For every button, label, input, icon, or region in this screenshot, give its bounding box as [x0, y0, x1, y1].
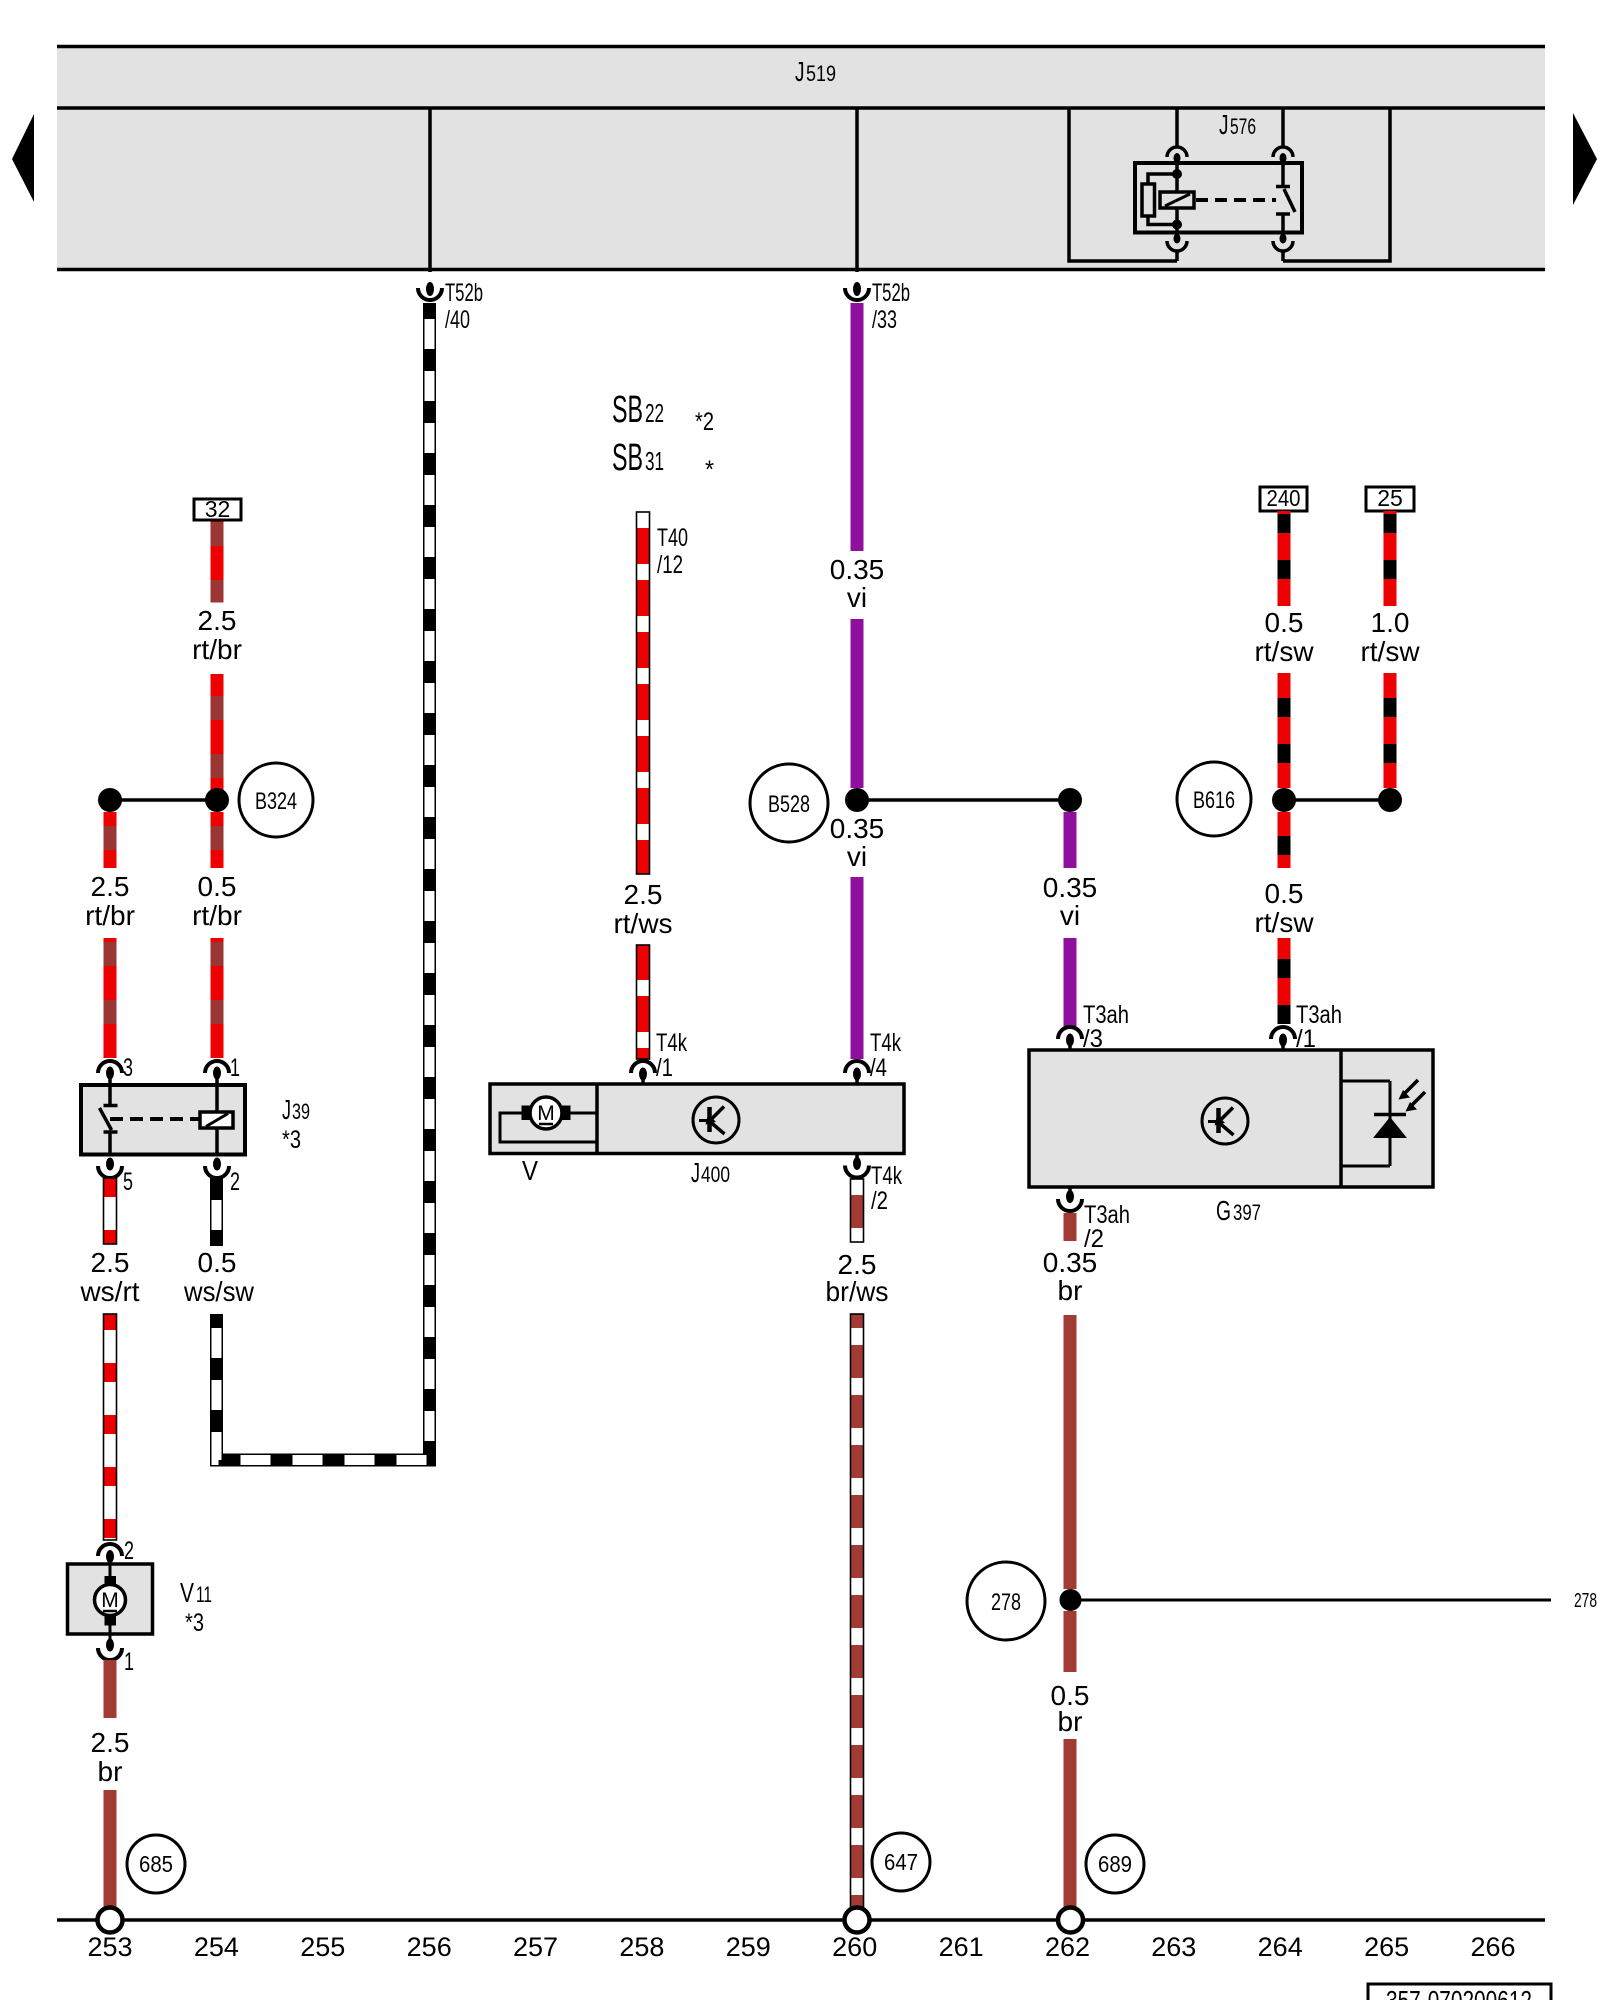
continuation arrow right	[1573, 113, 1597, 205]
svg-text:1.0: 1.0	[1371, 607, 1410, 638]
svg-text:685: 685	[139, 1851, 173, 1877]
svg-text:rt/sw: rt/sw	[1360, 636, 1420, 667]
svg-text:J: J	[691, 1157, 700, 1188]
sensor G397 pin T3ah/1 connector	[1271, 1027, 1295, 1039]
relay J39 pin 1 connector	[205, 1061, 229, 1073]
svg-text:vi: vi	[847, 582, 867, 613]
relay J39 coil	[200, 1112, 233, 1128]
svg-text:T40: T40	[657, 524, 688, 552]
svg-text:T4k: T4k	[870, 1029, 901, 1057]
wire 2.5 rt/br to node B324	[211, 674, 224, 800]
svg-text:2.5: 2.5	[91, 1727, 130, 1758]
relay J576 bottom pin connectors	[1167, 241, 1293, 251]
svg-text:/33: /33	[872, 306, 897, 334]
photodiode in G397	[1341, 1081, 1390, 1166]
motor V11 pin 2 connector	[98, 1544, 122, 1556]
ground bus line	[57, 1918, 1545, 1922]
node B616 junction	[1272, 788, 1296, 812]
svg-text:B528: B528	[768, 791, 810, 818]
ground terminal at 260	[845, 1908, 870, 1933]
svg-text:240: 240	[1267, 485, 1301, 511]
svg-text:ws/rt: ws/rt	[79, 1276, 139, 1307]
relay J39 switch	[104, 1085, 118, 1155]
continuation arrow left	[12, 114, 34, 202]
stamp box	[1368, 1984, 1551, 2005]
svg-text:vi: vi	[1060, 900, 1080, 931]
svg-text:J: J	[795, 56, 805, 87]
actuator J400 pin T4k/4 connector	[845, 1061, 869, 1073]
connector T52b/40	[426, 282, 434, 296]
wire 0.5 ws/sw below J39 pin 2	[210, 1178, 223, 1246]
svg-text:519: 519	[806, 61, 836, 86]
svg-text:/12: /12	[657, 551, 683, 579]
wire junction link	[1284, 798, 1390, 802]
svg-text:0.35: 0.35	[1043, 872, 1098, 903]
svg-text:256: 256	[407, 1932, 452, 1962]
wire 1.0 rt/sw from fuse 25	[1384, 511, 1397, 606]
relay J576 bracket wires	[1069, 108, 1390, 261]
ground terminal at 262	[1058, 1908, 1083, 1933]
wire junction link to 278	[1070, 1599, 1551, 1602]
svg-text:0.5: 0.5	[1265, 878, 1304, 909]
svg-text:397: 397	[1233, 1200, 1261, 1225]
svg-text:*2: *2	[695, 408, 714, 436]
node label 278	[967, 1562, 1045, 1640]
svg-text:22: 22	[645, 398, 664, 428]
svg-text:253: 253	[87, 1932, 132, 1962]
svg-text:257: 257	[513, 1932, 558, 1962]
svg-text:25: 25	[1377, 485, 1403, 511]
svg-text:689: 689	[1098, 1851, 1132, 1877]
wire 0.5 br to ground	[1064, 1611, 1077, 1672]
svg-text:260: 260	[832, 1932, 877, 1962]
indicator symbol K in G397	[1202, 1098, 1248, 1144]
node label B616	[1177, 762, 1251, 836]
svg-text:V: V	[180, 1577, 194, 1608]
wire junction link	[110, 798, 217, 802]
node label B324	[239, 763, 313, 837]
svg-text:262: 262	[1045, 1932, 1090, 1962]
svg-text:5: 5	[123, 1168, 133, 1196]
svg-text:647: 647	[884, 1849, 918, 1875]
svg-text:J: J	[282, 1094, 291, 1125]
svg-text:259: 259	[726, 1932, 771, 1962]
svg-text:rt/br: rt/br	[192, 634, 242, 665]
svg-text:J: J	[1219, 109, 1229, 140]
svg-text:*3: *3	[282, 1126, 301, 1154]
sensor G397 pin T3ah/2 connector	[1068, 1187, 1072, 1191]
svg-text:32: 32	[205, 496, 231, 522]
relay J39 coil wire	[215, 1085, 219, 1155]
fuse 32	[194, 499, 241, 520]
svg-text:V: V	[522, 1155, 538, 1186]
svg-text:264: 264	[1258, 1932, 1303, 1962]
svg-text:T52b: T52b	[445, 279, 483, 307]
svg-text:G: G	[1216, 1195, 1231, 1226]
svg-text:/2: /2	[871, 1187, 888, 1215]
ground terminal at 253	[98, 1908, 123, 1933]
svg-text:1: 1	[124, 1648, 134, 1676]
svg-text:278: 278	[991, 1589, 1021, 1616]
svg-text:T4k: T4k	[871, 1162, 902, 1190]
relay J576 switch	[1276, 163, 1290, 233]
svg-text:B324: B324	[255, 788, 297, 815]
fuse 240	[1260, 487, 1307, 511]
motor symbol V in J400	[500, 1113, 597, 1142]
svg-text:ws/sw: ws/sw	[183, 1276, 255, 1307]
indicator symbol K in J400	[693, 1097, 739, 1143]
ground designation 647	[872, 1833, 930, 1891]
motor V11 pin 1 connector	[106, 1639, 114, 1652]
relay J39 pin 5 connector	[106, 1158, 114, 1171]
svg-text:br: br	[1058, 1275, 1083, 1306]
wire junction link	[857, 798, 1070, 802]
motor V11 box	[68, 1564, 153, 1634]
light arrows	[1405, 1080, 1418, 1093]
svg-text:261: 261	[939, 1932, 984, 1962]
svg-text:1: 1	[230, 1054, 240, 1082]
svg-text:rt/br: rt/br	[192, 900, 242, 931]
svg-text:0.5: 0.5	[198, 1247, 237, 1278]
connector T52b/33	[853, 282, 861, 296]
relay J39 actuation dashed link	[110, 1117, 199, 1121]
node 278 junction	[1060, 1589, 1082, 1611]
wire J519 to T52b/40	[428, 108, 432, 272]
svg-text:0.5: 0.5	[1265, 607, 1304, 638]
relay J576 box	[1135, 163, 1302, 233]
wire 0.5 rt/sw from fuse 240	[1278, 511, 1291, 606]
svg-text:rt/br: rt/br	[85, 900, 135, 931]
wire sw/ws from T52b/40 down, left and up to J39 pin 2	[217, 303, 430, 1460]
svg-text:263: 263	[1151, 1932, 1196, 1962]
relay J576 coil	[1160, 192, 1194, 208]
svg-text:265: 265	[1364, 1932, 1409, 1962]
svg-text:SB: SB	[612, 389, 643, 431]
svg-text:400: 400	[701, 1162, 730, 1187]
wire 0.5 rt/sw to G397 pin T3ah/1	[1278, 812, 1291, 868]
svg-text:M: M	[101, 1589, 119, 1612]
svg-text:0.5: 0.5	[198, 871, 237, 902]
svg-text:T52b: T52b	[872, 279, 910, 307]
svg-text:2.5: 2.5	[198, 605, 237, 636]
wire 2.5 rt/br to J39 pin 3	[104, 812, 117, 868]
wire 2.5 rt/ws from T40/12	[637, 512, 650, 874]
svg-text:/40: /40	[445, 306, 470, 334]
svg-text:*: *	[705, 456, 714, 484]
svg-text:B616: B616	[1193, 787, 1235, 814]
svg-text:0.35: 0.35	[1043, 1247, 1098, 1278]
relay J39 pin 2 connector	[213, 1158, 221, 1171]
svg-text:br/ws: br/ws	[826, 1276, 889, 1307]
svg-text:T4k: T4k	[656, 1029, 687, 1057]
wire 2.5 rt/br from fuse 32	[211, 522, 224, 603]
wire 0.35 vi from T52b/33	[851, 303, 864, 551]
svg-text:255: 255	[300, 1932, 345, 1962]
relay J576 resistor	[1142, 184, 1155, 216]
actuator J400 pin T4k/2 connector	[855, 1154, 859, 1159]
wire 0.5 rt/br to J39 pin 1	[211, 812, 224, 868]
svg-text:0.35: 0.35	[830, 813, 885, 844]
sensor G397 box	[1029, 1050, 1433, 1187]
ground designation 689	[1086, 1835, 1144, 1893]
svg-text:258: 258	[619, 1932, 664, 1962]
relay J39 pin 3 connector	[98, 1061, 122, 1073]
svg-text:SB: SB	[612, 437, 643, 479]
relay J576 top pin connectors	[1167, 147, 1293, 157]
svg-text:/4: /4	[870, 1054, 887, 1082]
svg-text:0.35: 0.35	[830, 554, 885, 585]
node label B528	[750, 764, 828, 842]
actuator J400 pin T4k/1 connector	[631, 1061, 655, 1073]
motor V11 symbol	[109, 1564, 112, 1576]
actuator J400 box	[490, 1084, 904, 1154]
wire 0.35 vi branch to G397	[1064, 812, 1077, 868]
svg-text:2.5: 2.5	[91, 871, 130, 902]
svg-text:3: 3	[123, 1054, 133, 1082]
relay J576 coil branch wire	[1175, 163, 1179, 238]
svg-text:vi: vi	[847, 841, 867, 872]
svg-text:rt/ws: rt/ws	[613, 908, 672, 939]
svg-text:M: M	[537, 1102, 555, 1125]
wire 2.5 br from V11 pin 1	[104, 1660, 117, 1718]
svg-text:11: 11	[196, 1582, 212, 1607]
sensor G397 pin T3ah/3 connector	[1058, 1027, 1082, 1039]
relay J576 actuation dashed link	[1196, 198, 1276, 202]
svg-text:357-070200612: 357-070200612	[1386, 1985, 1532, 2000]
svg-text:br: br	[98, 1756, 123, 1787]
svg-text:254: 254	[194, 1932, 239, 1962]
svg-text:278: 278	[1574, 1590, 1597, 1612]
svg-text:*3: *3	[185, 1609, 204, 1637]
svg-text:br: br	[1058, 1706, 1083, 1737]
svg-text:2.5: 2.5	[91, 1247, 130, 1278]
wire 0.35 br from G397 pin T3ah/2	[1064, 1213, 1077, 1241]
svg-text:/1: /1	[656, 1054, 673, 1082]
control unit J519 band	[57, 45, 1545, 271]
svg-text:2: 2	[124, 1537, 134, 1565]
relay J39 box	[81, 1085, 245, 1155]
ground designation 685	[127, 1835, 185, 1893]
wire J519 to T52b/33	[855, 108, 859, 272]
svg-text:31: 31	[645, 446, 664, 476]
fuse 25	[1366, 487, 1414, 511]
node B324 junction	[205, 788, 229, 812]
svg-text:39: 39	[292, 1099, 310, 1124]
wire 2.5 br/ws from J400 pin T4k/2	[851, 1179, 864, 1242]
svg-text:2: 2	[230, 1168, 240, 1196]
node B528 junction	[845, 788, 869, 812]
svg-text:576: 576	[1230, 114, 1256, 139]
svg-text:266: 266	[1470, 1932, 1515, 1962]
wire 2.5 ws/rt from J39 pin 5	[104, 1178, 117, 1244]
svg-text:2.5: 2.5	[624, 879, 663, 910]
svg-text:rt/sw: rt/sw	[1254, 907, 1314, 938]
svg-text:rt/sw: rt/sw	[1254, 636, 1314, 667]
